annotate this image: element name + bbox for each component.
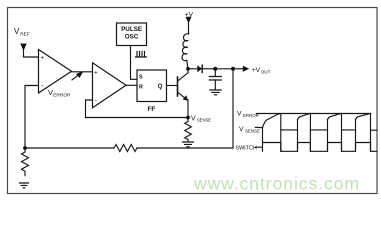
+VOUT output arrow	[243, 66, 249, 72]
wire cap node to output node	[215, 68, 233, 70]
node VERROR label with arrow	[48, 88, 71, 99]
wire VERROR level line	[256, 113, 370, 115]
svg-text:OSC: OSC	[125, 34, 139, 41]
transistor Q1	[177, 77, 179, 96]
node VSENSE waveform label	[239, 126, 260, 133]
node cap junction	[213, 67, 217, 71]
wire pulse osc to flip-flop S input	[131, 46, 138, 80]
wire diode to cap node	[202, 68, 215, 70]
svg-text:SWITCH: SWITCH	[236, 145, 257, 151]
svg-text:REF: REF	[20, 32, 30, 37]
waveform SWITCH trace	[255, 143, 377, 152]
waveform VSENSE trace ramps	[263, 114, 281, 128]
diode D1	[197, 65, 202, 72]
wire output node to arrow	[233, 68, 243, 70]
svg-text:FF: FF	[148, 106, 156, 113]
wire feedback bottom rail left part	[25, 147, 114, 149]
inductor L1	[182, 34, 189, 61]
svg-text:ERROR: ERROR	[53, 93, 71, 99]
node VSENSE label	[191, 116, 211, 123]
svg-text:Q: Q	[158, 84, 163, 90]
wire collector node to diode	[188, 68, 197, 70]
wire comparator output to flip-flop R input	[126, 84, 137, 86]
wire op-amp2 inverting input from VSENSE line	[86, 100, 93, 118]
svg-text:V: V	[239, 126, 244, 133]
svg-text:www.cntronics.com: www.cntronics.com	[193, 174, 360, 194]
node VREF label	[14, 27, 30, 37]
wire op-amp1 output to op-amp2 + input	[72, 71, 93, 73]
node collector junction	[186, 67, 190, 71]
resistor R divider lower (vertical)	[22, 148, 29, 176]
+V input arrow	[186, 17, 192, 24]
border frame	[8, 8, 378, 194]
svg-text:+: +	[94, 70, 98, 77]
node SWITCH waveform label	[236, 145, 257, 151]
svg-text:OUT: OUT	[261, 69, 271, 74]
wire +V to inductor	[188, 23, 190, 34]
waveform VSENSE low segments	[281, 129, 377, 131]
pulse oscillator box	[117, 23, 147, 46]
node +VOUT label	[252, 67, 271, 75]
wire VREF to op-amp1 + input	[24, 51, 39, 58]
wire sense line	[86, 117, 189, 119]
wire op-amp1 inverting input to feedback node	[25, 86, 39, 149]
capacitor C1	[214, 69, 216, 77]
resistor R sense	[185, 118, 192, 142]
resistor R feedback (horizontal)	[114, 145, 137, 152]
svg-text:PULSE: PULSE	[121, 26, 142, 33]
node VSENSE junction dot	[186, 116, 190, 120]
node junction dot feedback divider	[23, 146, 27, 150]
wire feedback bottom rail right part	[137, 147, 233, 149]
svg-text:S: S	[139, 75, 143, 81]
svg-text:V: V	[14, 27, 20, 36]
op-amp U1 error amplifier	[39, 50, 72, 94]
flip-flop FF box	[137, 70, 167, 102]
VREF input arrow	[20, 44, 26, 52]
node VERROR waveform label	[237, 111, 259, 118]
ground capacitor	[210, 90, 221, 95]
svg-text:+: +	[41, 55, 45, 62]
node output junction	[231, 67, 235, 71]
ground divider	[20, 183, 29, 188]
wire flip-flop Q output to transistor base	[167, 85, 178, 87]
svg-text:+V: +V	[252, 67, 261, 74]
wire emitter down to sense node	[187, 100, 189, 118]
wire VSENSE label connector	[255, 126, 262, 128]
waveform turn-on rise verticals	[263, 120, 356, 152]
ground sense resistor	[183, 142, 194, 147]
svg-text:R: R	[139, 85, 143, 91]
svg-text:SENSE: SENSE	[197, 118, 211, 123]
wire inductor to collector node	[187, 60, 188, 68]
svg-text:V: V	[237, 111, 242, 118]
clock pulses symbol	[136, 52, 147, 58]
svg-text:V: V	[191, 116, 196, 123]
node +V supply label	[185, 12, 194, 19]
svg-text:SENSE: SENSE	[245, 128, 260, 133]
op-amp U2 comparator	[93, 63, 127, 108]
wire output rail down	[232, 69, 234, 148]
waveform reset drop verticals	[281, 114, 371, 152]
